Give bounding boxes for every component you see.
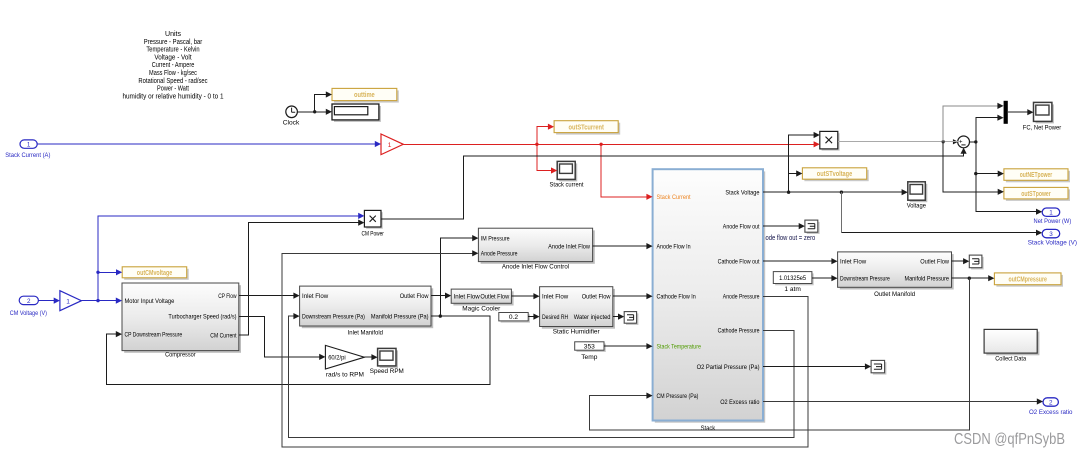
svg-text:Collect Data: Collect Data [995, 356, 1026, 363]
svg-text:1.01325e5: 1.01325e5 [779, 275, 806, 282]
svg-text:Inlet Flow: Inlet Flow [302, 293, 329, 300]
svg-text:Anode Flow out: Anode Flow out [723, 223, 760, 230]
wire CM Power to sum minus input [381, 148, 967, 219]
svg-text:O2 Excess ratio: O2 Excess ratio [720, 399, 760, 406]
wire branch down to outSTpower [943, 142, 1004, 195]
wire branch to Stack Current input [601, 144, 653, 200]
wire gain output (stack current, red) [403, 141, 820, 147]
svg-text:1: 1 [1049, 210, 1053, 217]
svg-text:outSTvoltage: outSTvoltage [817, 171, 852, 178]
svg-text:Cathode Pressure: Cathode Pressure [718, 328, 760, 335]
wire Manifold Pressure feedback to CP Downstream Pressure [107, 314, 490, 384]
annotation: Units text block [122, 31, 223, 100]
wire branch down to Stack Voltage outport [841, 192, 1042, 236]
svg-text:outSTcurrent: outSTcurrent [569, 124, 605, 131]
constant 1.01325e5 (1 atm) [773, 272, 813, 294]
svg-text:Pressure - Pascal, bar: Pressure - Pascal, bar [144, 39, 203, 46]
svg-text:Anode flow out = zero: Anode flow out = zero [758, 235, 815, 242]
gain 1 (red) [381, 134, 403, 155]
wire branch up to mux input 1 [943, 103, 1003, 142]
wire Anode Inlet Flow to Anode Flow In [593, 243, 653, 249]
svg-text:Anode Inlet Flow Control: Anode Inlet Flow Control [502, 264, 570, 271]
mux [1004, 101, 1008, 124]
svg-text:Motor Input Voltage: Motor Input Voltage [125, 298, 175, 305]
To File block outSTpower [1004, 187, 1070, 201]
subsystem Compressor [122, 283, 241, 359]
wire branch up to product and outSTvoltage [789, 132, 820, 192]
svg-text:Cathode Flow out: Cathode Flow out [718, 259, 760, 266]
scope FC, Net Power [1023, 102, 1062, 131]
wire Stack Current input to gain [37, 141, 381, 147]
svg-text:1: 1 [66, 298, 70, 305]
svg-text:1: 1 [388, 142, 392, 149]
svg-text:Net Power (W): Net Power (W) [1034, 218, 1072, 225]
svg-text:0.2: 0.2 [509, 314, 518, 321]
svg-text:CM Voltage (V): CM Voltage (V) [10, 310, 47, 317]
svg-text:Outlet Flow: Outlet Flow [920, 258, 949, 265]
To File block outCMvoltage [122, 267, 189, 280]
svg-text:Anode Flow In: Anode Flow In [657, 243, 692, 250]
svg-text:Stack Current (A): Stack Current (A) [5, 152, 50, 159]
wire Turbocharger Speed to rad/s to RPM gain [239, 316, 326, 360]
terminator (Outlet Flow) [969, 255, 983, 269]
svg-text:CP Downstream Pressure: CP Downstream Pressure [125, 331, 183, 338]
To File block outtime [332, 88, 399, 102]
wire Stack Voltage to Voltage scope [763, 189, 908, 195]
svg-text:Water injected: Water injected [574, 314, 611, 321]
wire Inlet Manifold Outlet Flow to Magic Cooler [431, 293, 451, 299]
wire Clock to Display [297, 109, 332, 115]
inport 1 Stack Current (A) [5, 140, 50, 159]
wire rad/s to RPM gain to Speed RPM scope [364, 354, 377, 360]
product CM Power [362, 210, 385, 237]
wire Outlet Manifold Outlet Flow to terminator [952, 258, 970, 264]
wire Manifold Pressure to outCMpressure [952, 275, 995, 281]
svg-text:Manifold Pressure (Pa): Manifold Pressure (Pa) [371, 313, 429, 320]
gain 1 (blue) [60, 291, 82, 311]
svg-text:1 atm: 1 atm [784, 286, 801, 293]
svg-text:Units: Units [165, 31, 181, 38]
svg-text:Manifold Pressure: Manifold Pressure [905, 275, 950, 282]
svg-text:Inlet Flow: Inlet Flow [840, 258, 867, 265]
wire 1 atm to Downstream Pressure [812, 275, 838, 281]
svg-text:outCMpressure: outCMpressure [1009, 277, 1047, 284]
wire sum output to mux input 2, outNETpower, Net Power outport [969, 115, 1042, 215]
To File block outNETpower [1004, 169, 1070, 183]
svg-text:CM Power: CM Power [362, 230, 385, 237]
wire CP Flow to Inlet Manifold [239, 293, 300, 299]
scope Stack current [550, 161, 584, 188]
subsystem Collect Data [984, 329, 1039, 362]
svg-text:Temp: Temp [581, 354, 597, 361]
product (V x I) [820, 131, 840, 150]
subsystem Inlet Manifold [300, 286, 434, 336]
svg-text:CSDN @qfPnSybB: CSDN @qfPnSybB [954, 431, 1065, 448]
wire Cathode Pressure feedback to Downstream Pressure (Pa) [289, 313, 794, 438]
svg-text:Power - Watt: Power - Watt [157, 86, 189, 93]
display Display (time) [332, 104, 381, 122]
wire Water injected to terminator [613, 314, 624, 320]
svg-text:Desired RH: Desired RH [542, 314, 568, 321]
terminator (Water injected) [624, 312, 638, 325]
svg-text:Cathode Flow In: Cathode Flow In [657, 294, 697, 301]
clock Clock [283, 106, 300, 127]
svg-text:Clock: Clock [283, 120, 300, 127]
svg-text:60/2/pi: 60/2/pi [328, 355, 346, 362]
svg-text:CM Pressure (Pa): CM Pressure (Pa) [657, 393, 699, 400]
svg-text:Inlet Flow: Inlet Flow [454, 293, 481, 300]
scope Speed RPM [370, 348, 404, 374]
subsystem Anode Inlet Flow Control [478, 228, 594, 270]
wire branch to Stack current scope [537, 144, 557, 173]
constant 0.2 [499, 313, 530, 323]
wire branch to IM Pressure [440, 235, 478, 316]
svg-text:Anode Inlet Flow: Anode Inlet Flow [548, 243, 590, 250]
svg-text:outNETpower: outNETpower [1020, 172, 1053, 179]
svg-text:outSTpower: outSTpower [1021, 191, 1051, 198]
wire branch to outSTcurrent [537, 124, 554, 145]
outport 2 O2 Excess ratio [1029, 398, 1073, 416]
inport 2 CM Voltage (V) [10, 296, 47, 317]
wire O2 Excess ratio to outport 2 [763, 398, 1043, 404]
subsystem Stack [653, 169, 766, 432]
svg-text:Turbocharger Speed (rad/s): Turbocharger Speed (rad/s) [168, 314, 236, 321]
svg-text:outtime: outtime [354, 92, 375, 99]
To File block outSTvoltage [802, 168, 868, 181]
outport 3 Stack Voltage (V) [1028, 229, 1077, 246]
terminator (Anode flow out) [805, 220, 820, 234]
subsystem Magic Cooler [451, 289, 513, 312]
wire mux to FC Net Power scope [1008, 109, 1034, 115]
svg-text:Stack Current: Stack Current [657, 194, 691, 201]
svg-text:Mass Flow - kg/sec: Mass Flow - kg/sec [149, 70, 197, 77]
constant 353 (Temp) [575, 342, 606, 361]
outport 1 Net Power (W) [1034, 208, 1072, 225]
wire Magic Cooler to Static Humidifier [511, 293, 539, 299]
svg-text:Anode Pressure: Anode Pressure [723, 294, 760, 301]
svg-text:humidity or relative humidity: humidity or relative humidity - 0 to 1 [122, 93, 223, 100]
svg-text:2: 2 [27, 298, 31, 305]
wire constant 0.2 to Desired RH [528, 314, 539, 320]
svg-text:Rotational Speed - rad/sec: Rotational Speed - rad/sec [138, 78, 208, 85]
wire product output to sum [838, 140, 958, 143]
wire O2 Partial Pressure to terminator [763, 363, 871, 369]
svg-text:O2 Excess ratio: O2 Excess ratio [1029, 409, 1073, 416]
svg-text:Voltage: Voltage [907, 203, 926, 210]
wire Anode Pressure feedback to Anode Pressure input [282, 250, 808, 447]
svg-text:Magic Cooler: Magic Cooler [462, 306, 501, 313]
svg-text:Outlet Flow: Outlet Flow [582, 293, 611, 300]
wire Humidifier Outlet Flow to Cathode Flow In [613, 293, 653, 299]
svg-text:Anode Pressure: Anode Pressure [481, 251, 518, 258]
svg-text:O2 Partial Pressure (Pa): O2 Partial Pressure (Pa) [697, 364, 760, 371]
svg-text:Downstream Pressure: Downstream Pressure [840, 275, 890, 282]
subsystem Static Humidifier [540, 287, 615, 336]
svg-text:Downstream Pressure (Pa): Downstream Pressure (Pa) [302, 313, 365, 320]
scope Voltage [907, 182, 928, 210]
To File block outCMpressure [994, 273, 1063, 287]
svg-text:Stack Voltage (V): Stack Voltage (V) [1028, 239, 1077, 246]
wire CM Current to CM Power [239, 220, 365, 336]
svg-text:3: 3 [1049, 231, 1053, 238]
To File block outSTcurrent [554, 121, 620, 135]
svg-text:2: 2 [1049, 399, 1053, 406]
wire blue gain to Motor Input Voltage [81, 298, 122, 304]
wire Anode Flow out to terminator [763, 223, 805, 229]
svg-text:rad/s to RPM: rad/s to RPM [326, 371, 364, 378]
svg-text:Voltage - Volt: Voltage - Volt [154, 54, 191, 61]
wire branch up to CM Power and outCMvoltage [96, 213, 364, 301]
svg-text:outCMvoltage: outCMvoltage [137, 270, 172, 277]
subsystem Outlet Manifold [838, 252, 954, 298]
svg-text:Outlet Flow: Outlet Flow [480, 293, 509, 300]
svg-text:Speed RPM: Speed RPM [370, 368, 404, 375]
svg-text:Inlet Manifold: Inlet Manifold [348, 329, 384, 336]
svg-text:Stack Temperature: Stack Temperature [657, 344, 702, 351]
svg-text:IM Pressure: IM Pressure [481, 235, 510, 242]
svg-text:353: 353 [584, 344, 595, 351]
wire Manifold Pressure feedback to CM Pressure (Pa) [590, 278, 970, 430]
gain rad/s to RPM (60/2/pi) [325, 345, 364, 378]
svg-text:CM Current: CM Current [210, 332, 236, 339]
svg-text:Stack current: Stack current [550, 182, 584, 189]
svg-text:FC, Net Power: FC, Net Power [1023, 125, 1062, 132]
terminator (O2 Partial Pressure) [871, 360, 886, 374]
wire CM Voltage input to gain [38, 298, 60, 304]
wire Clock branch to outtime [315, 91, 332, 111]
wire constant 353 to Stack Temperature [604, 343, 653, 349]
svg-text:Temperature - Kelvin: Temperature - Kelvin [146, 47, 199, 54]
svg-text:CP Flow: CP Flow [218, 293, 237, 300]
svg-text:Outlet Flow: Outlet Flow [400, 293, 429, 300]
wire Cathode Flow out to Outlet Manifold [763, 258, 838, 264]
svg-text:Compressor: Compressor [165, 352, 196, 359]
svg-text:Outlet Manifold: Outlet Manifold [874, 291, 915, 298]
svg-text:Stack: Stack [701, 425, 716, 432]
svg-text:Stack Voltage: Stack Voltage [725, 190, 760, 197]
sum (+ -) [953, 136, 970, 148]
svg-text:Static Humidifier: Static Humidifier [553, 328, 601, 335]
svg-text:1: 1 [27, 142, 31, 149]
svg-text:Current - Ampere: Current - Ampere [152, 62, 195, 69]
svg-text:Inlet Flow: Inlet Flow [542, 293, 569, 300]
